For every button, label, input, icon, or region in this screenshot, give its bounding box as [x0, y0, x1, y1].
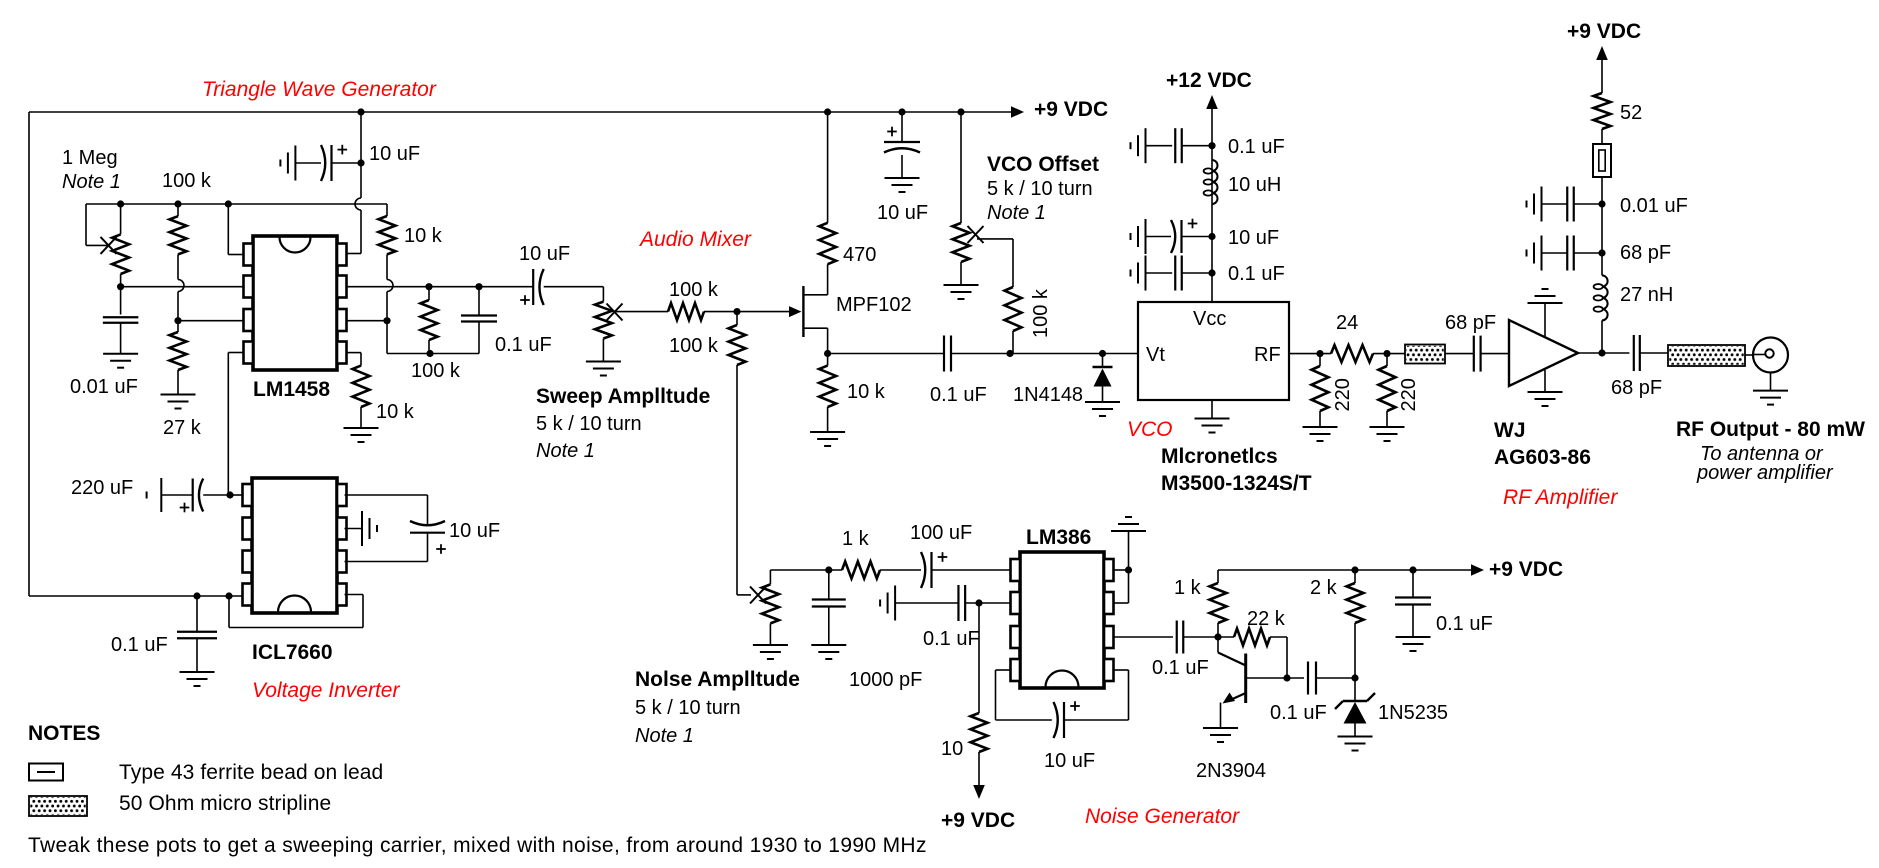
- svg-text:Type 43 ferrite bead on lead: Type 43 ferrite bead on lead: [119, 761, 383, 784]
- svg-text:1N5235: 1N5235: [1378, 702, 1448, 724]
- svg-text:0.01 uF: 0.01 uF: [70, 376, 138, 398]
- svg-text:Vt: Vt: [1146, 344, 1165, 366]
- svg-text:0.1 uF: 0.1 uF: [1436, 613, 1493, 635]
- ground connector: [1770, 373, 1772, 391]
- resistor 100k vertical to noise pot: [736, 312, 738, 325]
- capacitor C 10uF top-left with ground stub: [294, 146, 296, 181]
- svg-text:27 k: 27 k: [163, 417, 202, 439]
- svg-text:RF Output - 80 mW: RF Output - 80 mW: [1676, 418, 1865, 441]
- svg-text:Nolse Amplltude: Nolse Amplltude: [635, 668, 800, 691]
- capacitor 68pF bypass: [1601, 204, 1603, 253]
- svg-text:LM1458: LM1458: [253, 378, 330, 401]
- svg-text:100 k: 100 k: [411, 360, 461, 382]
- svg-text:470: 470: [843, 244, 876, 266]
- svg-text:68 pF: 68 pF: [1620, 242, 1671, 264]
- svg-text:27 nH: 27 nH: [1620, 284, 1673, 306]
- svg-text:1N4148: 1N4148: [1013, 384, 1083, 406]
- capacitor 0.1uF LM386 output: [1114, 636, 1173, 638]
- VCO module Micronetics M3500-1324S/T: [1138, 302, 1289, 400]
- svg-text:Triangle Wave Generator: Triangle Wave Generator: [202, 78, 437, 101]
- svg-text:52: 52: [1620, 102, 1642, 124]
- svg-text:Tweak these pots to get a swee: Tweak these pots to get a sweeping carri…: [28, 834, 927, 857]
- RF output connector: [1753, 338, 1788, 373]
- svg-text:power amplifier: power amplifier: [1696, 462, 1834, 484]
- capacitor 68pF amp input: [1473, 336, 1475, 372]
- svg-text:VCO Offset: VCO Offset: [987, 153, 1099, 176]
- capacitor 10uF VCO bypass: [1208, 233, 1215, 240]
- resistor 100k to output: [428, 287, 430, 300]
- svg-text:10 k: 10 k: [847, 381, 886, 403]
- svg-text:Sweep Amplltude: Sweep Amplltude: [536, 385, 710, 408]
- svg-text:2N3904: 2N3904: [1196, 760, 1266, 782]
- inductor 27nH: [1601, 253, 1603, 275]
- capacitor 0.1uF ICL7660: [193, 592, 200, 599]
- capacitor 0.1uF VCO bypass 2: [1208, 269, 1215, 276]
- svg-text:Audio Mixer: Audio Mixer: [638, 228, 752, 251]
- wire bottom rail of RC: [387, 353, 479, 355]
- svg-text:Note 1: Note 1: [536, 440, 595, 462]
- svg-text:22 k: 22 k: [1247, 608, 1286, 630]
- capacitor 10uF rail bypass: [898, 108, 905, 115]
- svg-text:100 uF: 100 uF: [910, 522, 972, 544]
- svg-text:50 Ohm micro stripline: 50 Ohm micro stripline: [119, 792, 331, 815]
- wire down to noise amplitude pot: [736, 365, 738, 595]
- svg-text:100 k: 100 k: [162, 170, 212, 192]
- svg-text:0.1 uF: 0.1 uF: [930, 384, 987, 406]
- svg-text:24: 24: [1336, 312, 1358, 334]
- svg-text:68 pF: 68 pF: [1445, 312, 1496, 334]
- svg-text:5 k / 10 turn: 5 k / 10 turn: [635, 697, 741, 719]
- stripline 50 ohm to amp: [1405, 345, 1445, 364]
- svg-text:5 k / 10 turn: 5 k / 10 turn: [536, 413, 642, 435]
- svg-text:10 uF: 10 uF: [877, 202, 928, 224]
- ground VCO: [1211, 400, 1213, 419]
- svg-text:10: 10: [941, 738, 963, 760]
- svg-text:0.01 uF: 0.01 uF: [1620, 195, 1688, 217]
- ferrite bead: [1601, 129, 1603, 144]
- capacitor 0.1uF VCO bypass 1: [1208, 142, 1215, 149]
- legend ferrite bead symbol: [29, 764, 63, 781]
- svg-text:0.1 uF: 0.1 uF: [923, 628, 980, 650]
- svg-text:LM386: LM386: [1026, 526, 1091, 549]
- svg-text:RF: RF: [1254, 344, 1281, 366]
- svg-text:0.1 uF: 0.1 uF: [111, 634, 168, 656]
- op-amp LM1458 DIP-8: [253, 236, 337, 370]
- svg-text:RF Amplifier: RF Amplifier: [1503, 486, 1618, 509]
- voltage inverter ICL7660 DIP-8: [252, 478, 337, 613]
- resistor 220 first: [1319, 354, 1321, 366]
- svg-text:Mlcronetlcs: Mlcronetlcs: [1161, 445, 1278, 468]
- svg-text:1000 pF: 1000 pF: [849, 669, 922, 691]
- ICL7660 pin2 ground: [345, 528, 363, 530]
- svg-text:+12 VDC: +12 VDC: [1166, 69, 1252, 92]
- potentiometer 1 Meg: [85, 204, 87, 245]
- wire noise pot to 1k: [770, 569, 842, 571]
- capacitor 100uF: [921, 552, 925, 588]
- stripline 50 ohm output: [1668, 345, 1745, 366]
- resistor 10k feedback: [386, 204, 388, 216]
- svg-text:10 uF: 10 uF: [1228, 227, 1279, 249]
- svg-text:NOTES: NOTES: [28, 722, 100, 745]
- capacitor 10uF LM386 bypass loop: [996, 669, 1011, 671]
- svg-text:10 k: 10 k: [376, 401, 415, 423]
- svg-text:1 k: 1 k: [1174, 577, 1202, 599]
- resistor 24: [1331, 345, 1373, 362]
- LM386 pin1-pin8 gain cap region / ground: [1114, 569, 1129, 571]
- capacitor 0.01uF: [120, 287, 122, 315]
- resistor 100k audio mixer: [668, 303, 704, 320]
- resistor 52: [1594, 93, 1611, 129]
- wire bottom-left to ICL7660 pin4: [29, 595, 245, 597]
- svg-text:+9 VDC: +9 VDC: [1567, 20, 1641, 43]
- resistor 1k noise: [842, 562, 880, 579]
- svg-text:+9 VDC: +9 VDC: [1489, 558, 1563, 581]
- capacitor 220uF ICL7660 input: [146, 492, 148, 499]
- legend stripline symbol: [29, 796, 87, 816]
- svg-text:1 Meg: 1 Meg: [62, 147, 118, 169]
- diode 1N4148: [1099, 350, 1106, 357]
- capacitor 0.01uF bypass: [1598, 200, 1605, 207]
- svg-text:100 k: 100 k: [669, 279, 719, 301]
- svg-text:WJ: WJ: [1494, 419, 1526, 442]
- resistor 1k bias: [1217, 570, 1219, 583]
- left rail wire: [28, 112, 30, 596]
- wire pin1 LM1458: [227, 204, 229, 255]
- wire pin6 output LM1458: [347, 286, 534, 288]
- svg-text:5 k / 10 turn: 5 k / 10 turn: [987, 178, 1093, 200]
- svg-text:Note 1: Note 1: [635, 725, 694, 747]
- svg-text:10 uF: 10 uF: [449, 520, 500, 542]
- wire RF out: [1289, 353, 1331, 355]
- svg-text:Note 1: Note 1: [62, 171, 121, 193]
- svg-text:0.1 uF: 0.1 uF: [1228, 136, 1285, 158]
- resistor 22k feedback: [1234, 629, 1270, 646]
- svg-text:100 k: 100 k: [1030, 288, 1052, 338]
- feedback wire y204: [86, 203, 387, 205]
- svg-text:+9 VDC: +9 VDC: [941, 809, 1015, 832]
- svg-text:68 pF: 68 pF: [1611, 377, 1662, 399]
- svg-text:10 uF: 10 uF: [519, 243, 570, 265]
- potentiometer VCO Offset: [957, 108, 964, 115]
- capacitor 0.1uF series to VCO: [828, 353, 944, 355]
- transistor 2N3904: [1244, 654, 1247, 704]
- svg-text:220 uF: 220 uF: [71, 477, 133, 499]
- svg-text:1 k: 1 k: [842, 528, 870, 550]
- node dot 10uF to +9V column: [357, 159, 364, 166]
- wire pin7 LM1458: [347, 320, 388, 322]
- resistor 100k top-left: [170, 216, 187, 254]
- svg-text:MPF102: MPF102: [836, 294, 912, 316]
- svg-text:100 k: 100 k: [669, 335, 719, 357]
- resistor 27k: [170, 332, 187, 370]
- resistor 470: [819, 223, 836, 264]
- svg-text:Noise Generator: Noise Generator: [1085, 805, 1240, 828]
- resistor 100k VCO offset: [1012, 239, 1014, 287]
- ground top of amp: [1544, 303, 1546, 337]
- capacitor 0.1uF noise rail bypass: [1412, 570, 1414, 598]
- capacitor 10uF ICL7660 charge pump: [345, 494, 428, 496]
- svg-text:0.1 uF: 0.1 uF: [1152, 657, 1209, 679]
- resistor 10 ohm +9V feed: [978, 603, 980, 713]
- capacitor 10uF sweep coupling: [532, 269, 534, 305]
- ground bottom of amp: [1544, 370, 1546, 392]
- capacitor 0.1uF: [478, 287, 480, 316]
- capacitor 0.1uF LM386 input ground: [894, 586, 896, 621]
- wire vertical x361 rail to pin5 of LM1458: [360, 112, 362, 163]
- svg-text:Voltage Inverter: Voltage Inverter: [252, 679, 400, 702]
- svg-text:AG603-86: AG603-86: [1494, 446, 1591, 469]
- svg-text:+9 VDC: +9 VDC: [1034, 98, 1108, 121]
- amplifier WJ AG603-86: [1509, 320, 1578, 386]
- amplifier LM386 DIP-8: [1020, 552, 1104, 688]
- resistor 220 second: [1386, 354, 1388, 366]
- amp output node: [1578, 352, 1629, 354]
- svg-text:0.1 uF: 0.1 uF: [1228, 263, 1285, 285]
- svg-text:ICL7660: ICL7660: [252, 641, 333, 664]
- capacitor 68pF output: [1633, 335, 1635, 371]
- capacitor 0.1uF zener coupling: [1287, 677, 1304, 679]
- +9 VDC top rail: [29, 111, 1011, 113]
- ICL7660 pin4 loop: [345, 594, 364, 596]
- svg-text:Vcc: Vcc: [1193, 308, 1226, 330]
- svg-text:220: 220: [1332, 378, 1354, 411]
- svg-text:10 uF: 10 uF: [369, 143, 420, 165]
- potentiometer Sweep Amplitude: [602, 287, 604, 302]
- zener diode 1N5235: [1354, 678, 1356, 701]
- svg-text:10 uH: 10 uH: [1228, 174, 1281, 196]
- svg-text:2 k: 2 k: [1310, 577, 1338, 599]
- wire pin4 LM1458 down to ICL7660: [228, 352, 243, 354]
- wire pin2 LM1458: [121, 286, 244, 288]
- inductor 10uH: [1212, 160, 1218, 171]
- svg-text:10 k: 10 k: [404, 225, 443, 247]
- svg-text:0.1 uF: 0.1 uF: [1270, 702, 1327, 724]
- svg-text:M3500-1324S/T: M3500-1324S/T: [1161, 472, 1312, 495]
- svg-text:0.1 uF: 0.1 uF: [495, 334, 552, 356]
- resistor 10k MPF102 source: [824, 350, 831, 357]
- resistor 10k LM1458 pin8 to ground: [347, 352, 362, 354]
- +9 VDC noise rail: [1218, 569, 1472, 571]
- transistor MPF102 JFET: [789, 306, 802, 317]
- svg-text:10 uF: 10 uF: [1044, 750, 1095, 772]
- capacitor 1000pF: [828, 570, 830, 600]
- resistor 2k: [1354, 570, 1356, 583]
- svg-text:VCO: VCO: [1127, 418, 1173, 441]
- svg-text:Note 1: Note 1: [987, 202, 1046, 224]
- potentiometer Noise Amplitude: [750, 587, 766, 604]
- wire pin3 LM1458: [174, 317, 181, 324]
- svg-text:220: 220: [1398, 378, 1420, 411]
